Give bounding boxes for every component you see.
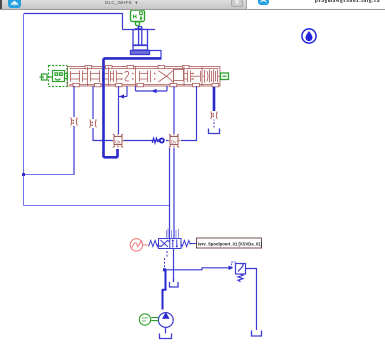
svg-text:Ck: Ck xyxy=(115,139,121,144)
svg-text:Dv: Dv xyxy=(171,139,177,144)
svg-text:terv_Spoolpoort_01 [XSVDa_01]: terv_Spoolpoort_01 [XSVDa_01] xyxy=(198,242,263,247)
